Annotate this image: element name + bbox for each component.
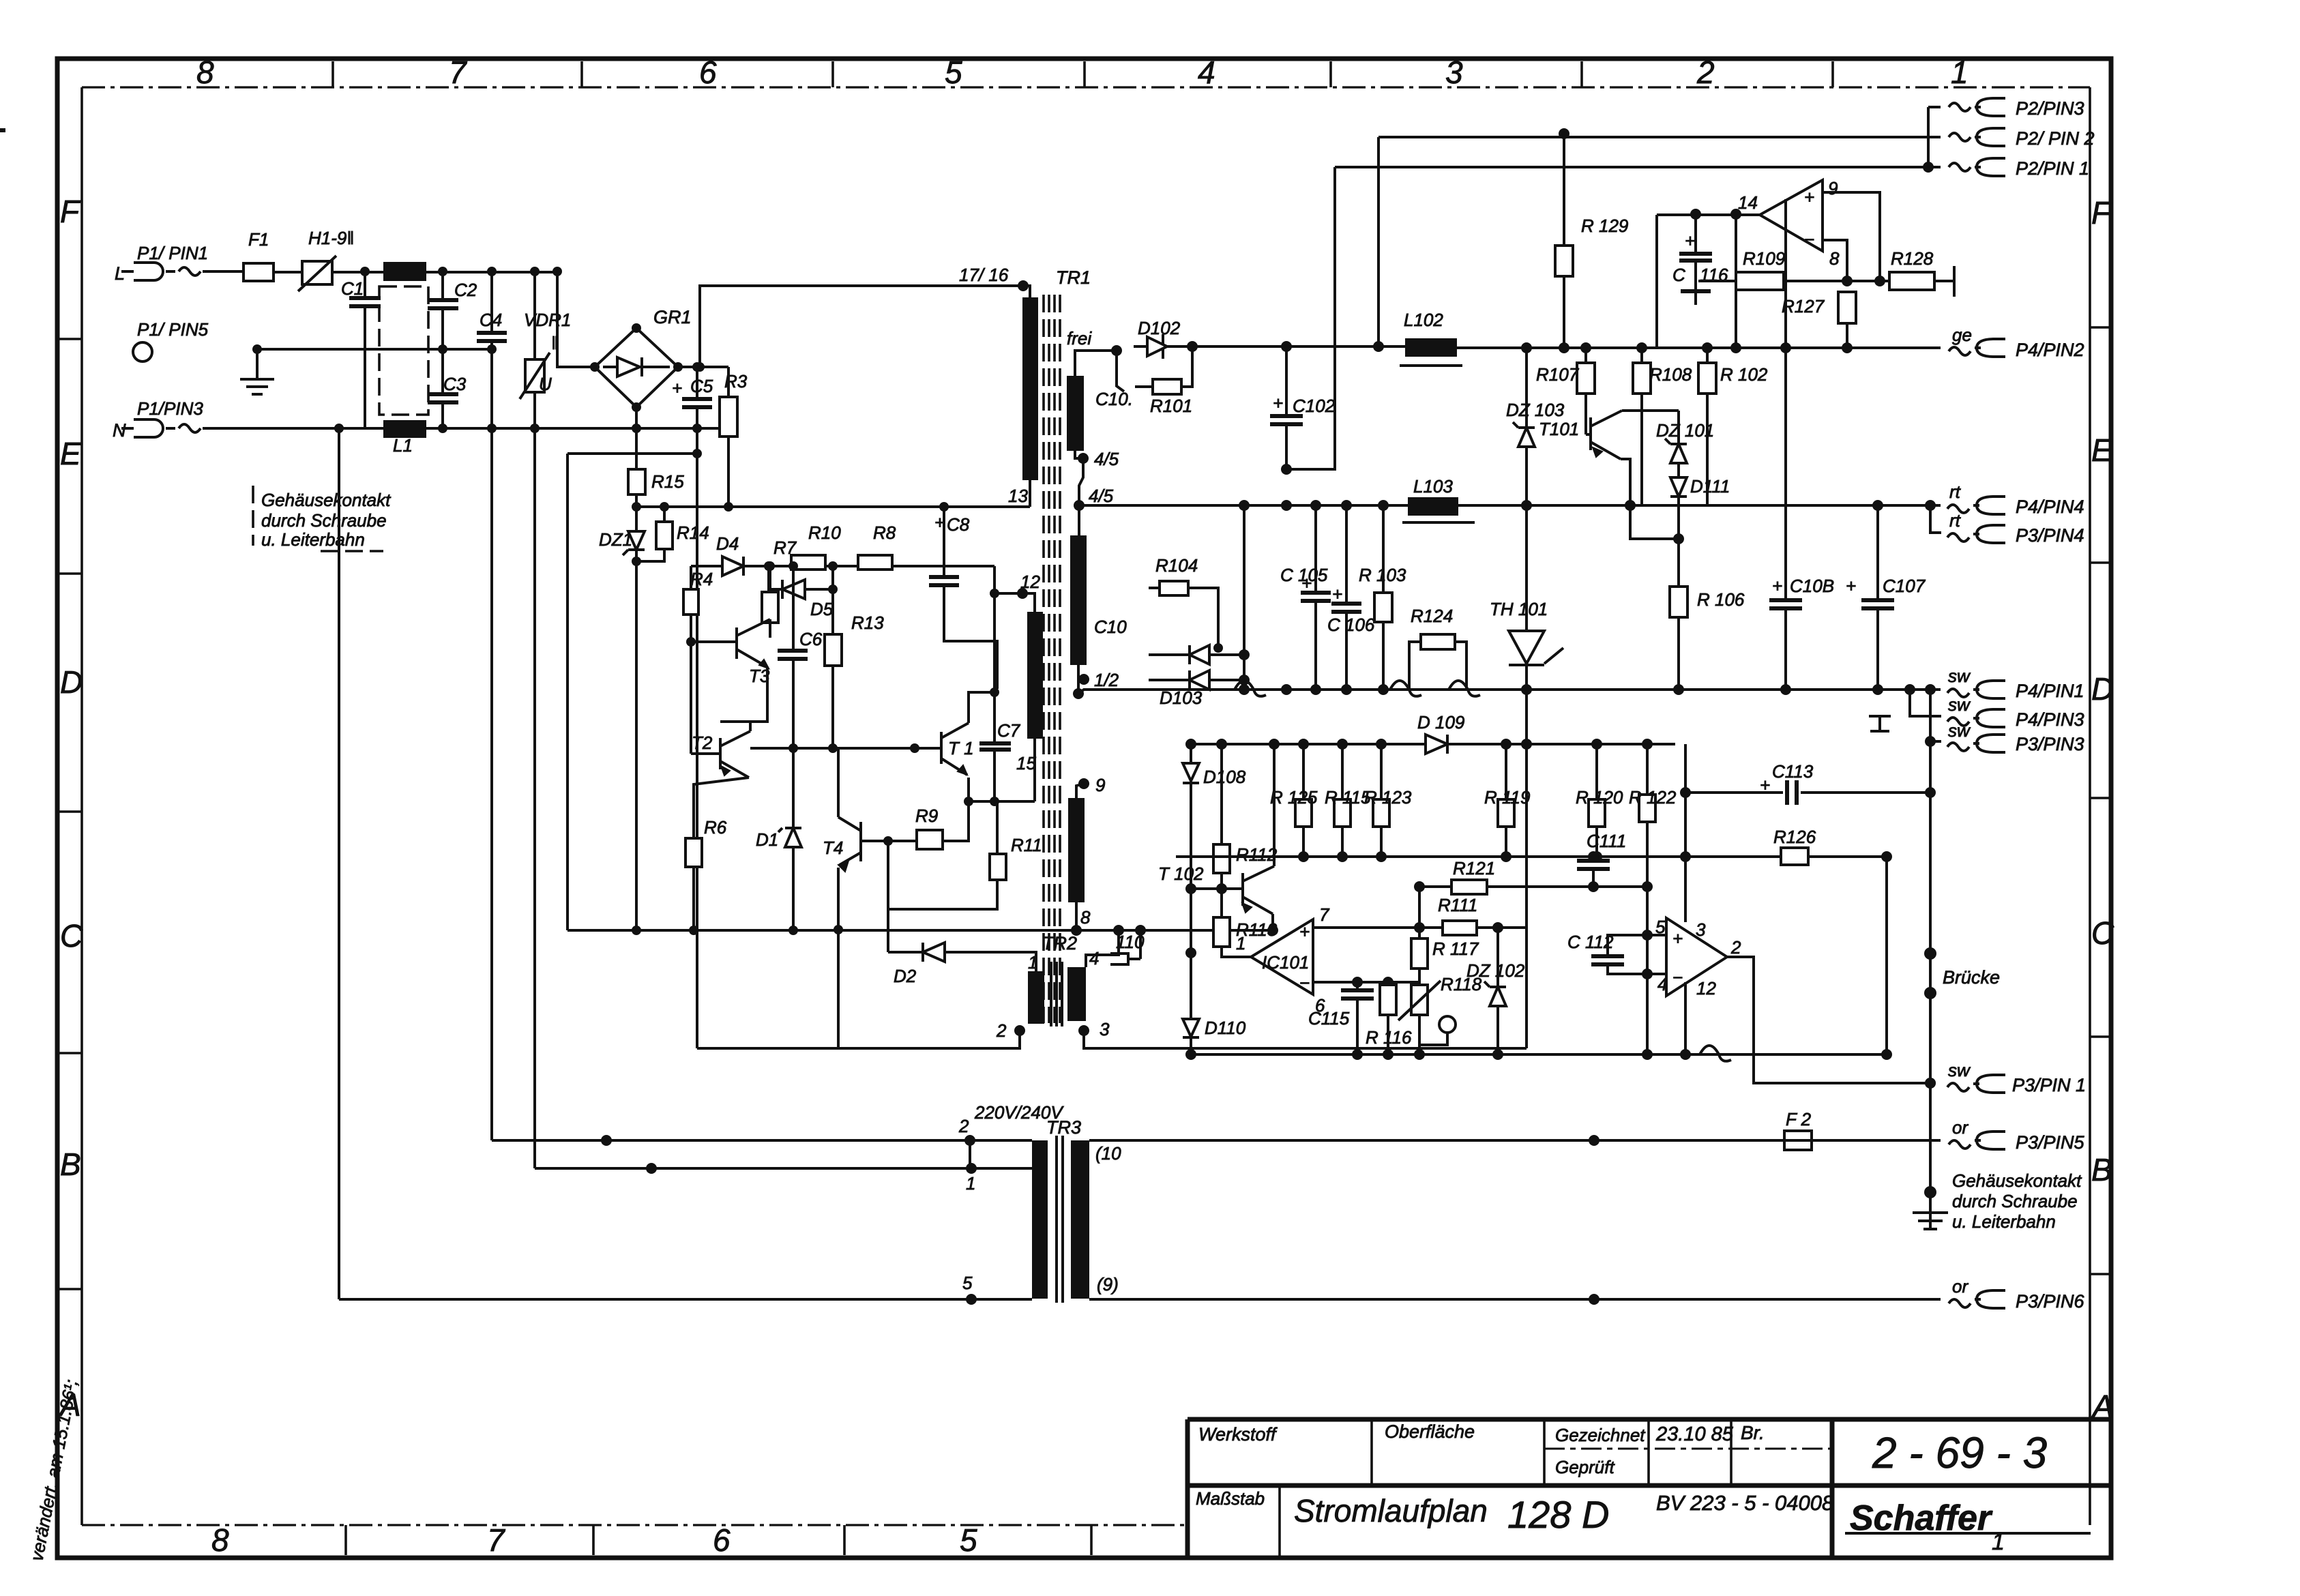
- svg-text:L1: L1: [393, 435, 413, 456]
- svg-text:Gehäusekontakt: Gehäusekontakt: [261, 490, 392, 510]
- svg-text:R 106: R 106: [1697, 589, 1745, 610]
- svg-text:P1/ PIN5: P1/ PIN5: [137, 319, 209, 340]
- svg-text:C5: C5: [690, 376, 713, 396]
- svg-text:+: +: [1772, 576, 1782, 596]
- svg-text:14: 14: [1738, 192, 1758, 213]
- svg-text:P3/PIN5: P3/PIN5: [2016, 1132, 2085, 1153]
- svg-text:C102: C102: [1293, 396, 1336, 416]
- svg-text:T101: T101: [1539, 419, 1579, 439]
- svg-text:R 122: R 122: [1629, 787, 1677, 808]
- svg-text:R 117: R 117: [1432, 939, 1479, 959]
- svg-text:durch Schraube: durch Schraube: [1952, 1191, 2078, 1211]
- svg-text:C8: C8: [947, 514, 970, 535]
- svg-text:DZ 103: DZ 103: [1506, 400, 1565, 420]
- svg-text:C10: C10: [1094, 617, 1127, 637]
- svg-text:R 119: R 119: [1484, 787, 1530, 808]
- svg-text:5: 5: [962, 1273, 973, 1293]
- svg-text:C: C: [60, 918, 83, 954]
- svg-text:R8: R8: [873, 522, 896, 543]
- svg-text:6: 6: [699, 55, 717, 90]
- svg-text:T4: T4: [823, 838, 843, 858]
- svg-text:D102: D102: [1138, 318, 1181, 338]
- svg-text:Gehäusekontakt: Gehäusekontakt: [1952, 1170, 2082, 1191]
- svg-text:F: F: [60, 194, 81, 229]
- svg-text:4: 4: [1198, 55, 1215, 90]
- svg-text:TH 101: TH 101: [1490, 599, 1548, 619]
- svg-text:P3/PIN4: P3/PIN4: [2016, 525, 2084, 546]
- svg-text:L103: L103: [1413, 476, 1453, 497]
- svg-text:R11: R11: [1011, 835, 1042, 855]
- svg-text:P2/ PIN 2: P2/ PIN 2: [2016, 128, 2095, 149]
- svg-text:rt: rt: [1949, 510, 1962, 531]
- svg-text:R124: R124: [1411, 606, 1453, 626]
- svg-text:F1: F1: [248, 229, 269, 250]
- svg-text:8: 8: [196, 55, 214, 90]
- svg-text:23.10 85: 23.10 85: [1655, 1423, 1734, 1445]
- svg-text:4: 4: [1089, 948, 1099, 969]
- svg-text:R107: R107: [1536, 364, 1580, 385]
- svg-text:R 129: R 129: [1581, 216, 1628, 236]
- svg-text:1: 1: [1992, 1529, 2005, 1555]
- svg-text:Werkstoff: Werkstoff: [1198, 1424, 1278, 1445]
- svg-text:C115: C115: [1308, 1008, 1350, 1029]
- svg-text:C: C: [1672, 265, 1685, 285]
- svg-text:D: D: [60, 664, 83, 700]
- svg-text:N: N: [113, 420, 126, 441]
- svg-text:R101: R101: [1150, 396, 1192, 416]
- svg-text:C10B: C10B: [1790, 576, 1834, 596]
- svg-text:u. Leiterbahn: u. Leiterbahn: [261, 529, 365, 550]
- svg-text:9: 9: [1095, 775, 1105, 795]
- svg-text:+: +: [1760, 775, 1770, 795]
- svg-text:8: 8: [1080, 907, 1091, 928]
- svg-text:F: F: [2091, 195, 2112, 231]
- svg-text:durch Schraube: durch Schraube: [261, 510, 387, 531]
- svg-text:15: 15: [1016, 753, 1036, 773]
- svg-text:BV 223 - 5 - 04008: BV 223 - 5 - 04008: [1656, 1491, 1834, 1515]
- svg-text:sw: sw: [1948, 694, 1971, 715]
- svg-text:P3/PIN6: P3/PIN6: [2016, 1291, 2085, 1312]
- svg-text:P3/PIN3: P3/PIN3: [2016, 734, 2084, 754]
- svg-text:C7: C7: [997, 720, 1021, 741]
- svg-text:R4: R4: [690, 569, 713, 589]
- svg-text:1: 1: [1028, 952, 1037, 973]
- svg-text:+: +: [1299, 921, 1310, 942]
- svg-text:Br.: Br.: [1741, 1422, 1765, 1443]
- svg-text:E: E: [60, 436, 82, 471]
- svg-text:1: 1: [1951, 55, 1969, 90]
- svg-text:D110: D110: [1205, 1018, 1246, 1038]
- svg-text:−: −: [1672, 967, 1683, 988]
- svg-text:5: 5: [945, 55, 962, 90]
- svg-text:R121: R121: [1453, 858, 1495, 878]
- svg-text:R 120: R 120: [1576, 787, 1623, 808]
- svg-text:R109: R109: [1743, 248, 1785, 269]
- svg-text:R 103: R 103: [1359, 565, 1406, 585]
- svg-text:rt: rt: [1949, 482, 1962, 502]
- svg-text:frei: frei: [1067, 328, 1092, 349]
- svg-text:D5: D5: [810, 599, 834, 619]
- svg-text:T2: T2: [692, 733, 713, 753]
- svg-text:P2/PIN3: P2/PIN3: [2016, 98, 2084, 119]
- svg-text:E: E: [2091, 432, 2113, 468]
- svg-text:C111: C111: [1587, 831, 1626, 851]
- svg-text:−: −: [1299, 973, 1310, 993]
- svg-text:TR3: TR3: [1046, 1117, 1081, 1138]
- svg-text:sw: sw: [1948, 1060, 1971, 1080]
- svg-text:1: 1: [1236, 933, 1245, 954]
- svg-text:R14: R14: [677, 522, 709, 543]
- svg-text:D2: D2: [894, 966, 917, 986]
- svg-text:DZ 102: DZ 102: [1466, 960, 1525, 981]
- svg-text:+: +: [1846, 576, 1856, 596]
- svg-text:R 102: R 102: [1720, 364, 1768, 385]
- svg-text:C 105: C 105: [1280, 565, 1328, 585]
- svg-text:C107: C107: [1883, 576, 1926, 596]
- svg-text:u. Leiterbahn: u. Leiterbahn: [1952, 1211, 2056, 1232]
- svg-text:C4: C4: [480, 310, 502, 330]
- svg-text:L: L: [115, 263, 125, 284]
- svg-text:+: +: [672, 378, 682, 398]
- svg-text:D: D: [2091, 671, 2114, 707]
- svg-text:3: 3: [1100, 1019, 1110, 1039]
- svg-text:5: 5: [1655, 917, 1666, 937]
- svg-text:1/2: 1/2: [1094, 670, 1119, 690]
- svg-text:4: 4: [1657, 974, 1667, 994]
- svg-text:+: +: [1672, 928, 1683, 949]
- svg-text:F 2: F 2: [1786, 1109, 1812, 1129]
- svg-text:ge: ge: [1952, 325, 1972, 345]
- svg-text:+: +: [1804, 187, 1814, 207]
- svg-text:D1: D1: [756, 829, 778, 850]
- svg-text:Maßstab: Maßstab: [1196, 1488, 1265, 1509]
- svg-text:+: +: [1332, 584, 1342, 604]
- svg-text:2: 2: [958, 1116, 969, 1136]
- svg-text:P4/PIN1: P4/PIN1: [2016, 681, 2084, 701]
- svg-text:17/ 16: 17/ 16: [959, 265, 1009, 285]
- svg-text:13: 13: [1008, 486, 1028, 506]
- svg-text:8: 8: [1829, 248, 1840, 269]
- svg-text:12: 12: [1020, 572, 1040, 592]
- svg-text:5: 5: [960, 1522, 977, 1558]
- svg-text:P4/PIN2: P4/PIN2: [2016, 340, 2084, 360]
- svg-text:R15: R15: [651, 471, 684, 492]
- svg-text:GR1: GR1: [653, 307, 692, 327]
- svg-text:D 109: D 109: [1417, 712, 1464, 733]
- svg-text:H1-9‖: H1-9‖: [308, 228, 354, 248]
- svg-text:R126: R126: [1773, 827, 1816, 847]
- svg-text:P3/PIN 1: P3/PIN 1: [2012, 1075, 2086, 1095]
- svg-text:R 123: R 123: [1364, 787, 1412, 808]
- svg-text:B: B: [2091, 1152, 2112, 1187]
- svg-text:D108: D108: [1203, 767, 1246, 787]
- svg-text:R108: R108: [1649, 364, 1692, 385]
- svg-text:sw: sw: [1948, 720, 1971, 741]
- svg-text:R 125: R 125: [1270, 787, 1318, 808]
- svg-text:DZ 101: DZ 101: [1656, 420, 1714, 441]
- svg-text:R128: R128: [1891, 248, 1934, 269]
- svg-text:3: 3: [1696, 919, 1706, 940]
- svg-text:2 - 69 - 3: 2 - 69 - 3: [1872, 1428, 2048, 1477]
- svg-text:C 106: C 106: [1327, 615, 1375, 635]
- svg-text:R 116: R 116: [1366, 1027, 1412, 1048]
- svg-text:R111: R111: [1438, 895, 1477, 915]
- svg-text:R10: R10: [808, 522, 841, 543]
- svg-text:VDR1: VDR1: [524, 310, 571, 330]
- svg-text:B: B: [60, 1147, 81, 1182]
- svg-text:or: or: [1952, 1276, 1969, 1297]
- svg-text:R104: R104: [1155, 555, 1198, 576]
- svg-text:+: +: [934, 512, 945, 533]
- svg-text:3: 3: [1445, 55, 1463, 90]
- svg-text:(9): (9): [1097, 1274, 1119, 1295]
- svg-text:or: or: [1952, 1117, 1969, 1138]
- svg-text:Gezeichnet: Gezeichnet: [1555, 1425, 1646, 1445]
- svg-text:D4: D4: [716, 533, 739, 554]
- svg-text:2: 2: [1730, 937, 1741, 958]
- svg-text:IC101: IC101: [1262, 952, 1309, 973]
- svg-text:Brücke: Brücke: [1943, 967, 2000, 988]
- svg-text:C2: C2: [454, 280, 477, 300]
- svg-text:C3: C3: [443, 374, 467, 394]
- svg-text:R9: R9: [915, 806, 938, 826]
- svg-text:P2/PIN 1: P2/PIN 1: [2016, 158, 2089, 179]
- svg-text:8: 8: [211, 1522, 229, 1558]
- svg-text:DZ1: DZ1: [599, 529, 632, 550]
- svg-text:(10: (10: [1095, 1143, 1121, 1164]
- svg-text:R6: R6: [704, 817, 727, 838]
- svg-text:1: 1: [966, 1173, 975, 1194]
- svg-text:sw: sw: [1948, 666, 1971, 686]
- svg-text:2: 2: [996, 1020, 1007, 1041]
- svg-text:R112: R112: [1236, 844, 1278, 865]
- svg-text:C: C: [2091, 915, 2114, 951]
- svg-text:TR2: TR2: [1042, 933, 1077, 954]
- svg-text:R127: R127: [1782, 296, 1825, 316]
- svg-text:L102: L102: [1404, 310, 1443, 330]
- svg-text:T 102: T 102: [1158, 863, 1204, 884]
- svg-text:C6: C6: [799, 629, 823, 649]
- svg-text:4/5: 4/5: [1094, 449, 1119, 469]
- svg-text:R13: R13: [851, 612, 884, 633]
- svg-text:6: 6: [713, 1522, 731, 1558]
- svg-text:C113: C113: [1772, 761, 1814, 782]
- svg-text:P1/PIN3: P1/PIN3: [137, 398, 203, 419]
- svg-text:9: 9: [1828, 178, 1838, 198]
- svg-text:TR1: TR1: [1056, 267, 1091, 288]
- svg-text:C1: C1: [341, 278, 364, 299]
- svg-text:128 D: 128 D: [1507, 1493, 1609, 1536]
- svg-text:−: −: [1804, 229, 1814, 250]
- svg-text:7: 7: [449, 55, 467, 90]
- svg-text:P4/PIN4: P4/PIN4: [2016, 497, 2084, 517]
- svg-text:D111: D111: [1690, 476, 1730, 497]
- svg-text:R3: R3: [724, 371, 748, 391]
- svg-text:2: 2: [1696, 55, 1715, 90]
- svg-text:Oberfläche: Oberfläche: [1385, 1421, 1475, 1442]
- svg-text:C 112: C 112: [1567, 932, 1614, 952]
- svg-text:P4/PIN3: P4/PIN3: [2016, 709, 2084, 730]
- svg-text:7: 7: [487, 1522, 505, 1558]
- svg-text:T 1: T 1: [948, 738, 974, 758]
- svg-text:P1/ PIN1: P1/ PIN1: [137, 243, 208, 263]
- svg-text:+: +: [1273, 393, 1283, 413]
- svg-text:+: +: [1685, 231, 1695, 251]
- svg-text:Geprüft: Geprüft: [1555, 1457, 1615, 1477]
- svg-text:Stromlaufplan: Stromlaufplan: [1294, 1493, 1488, 1528]
- svg-text:12: 12: [1696, 978, 1716, 999]
- svg-text:U: U: [539, 374, 552, 394]
- svg-text:C10.: C10.: [1095, 389, 1133, 409]
- svg-text:7: 7: [1319, 904, 1330, 925]
- svg-text:4/5: 4/5: [1089, 486, 1114, 506]
